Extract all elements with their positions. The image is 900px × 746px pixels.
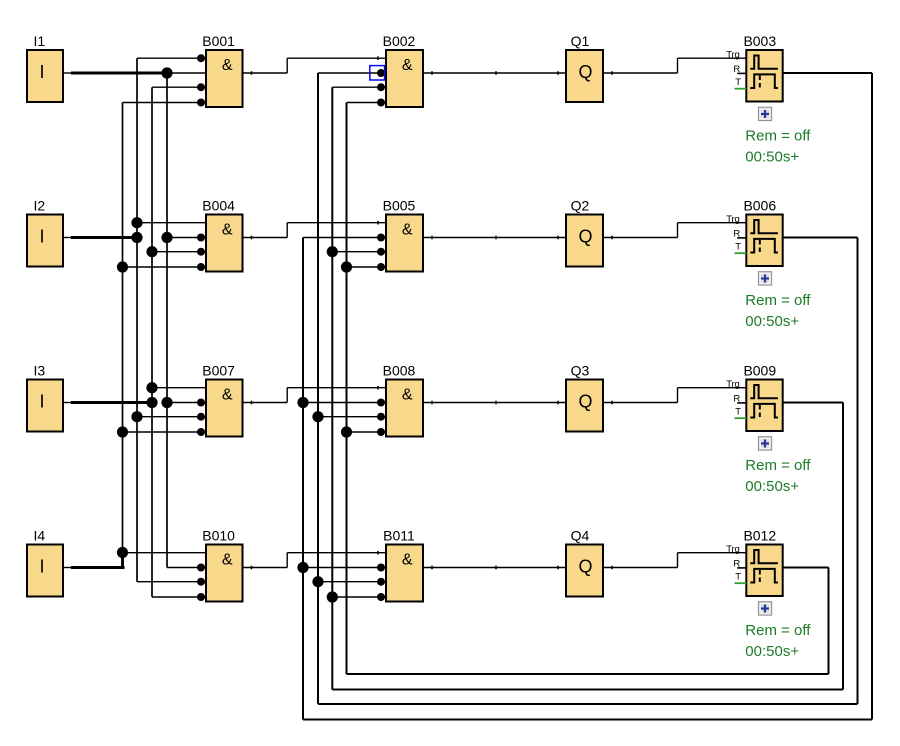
svg-text:Q2: Q2 (571, 197, 590, 213)
svg-text:I2: I2 (34, 197, 46, 213)
svg-text:00:50s+: 00:50s+ (745, 149, 799, 166)
svg-text:Q4: Q4 (571, 527, 590, 543)
svg-text:B003: B003 (743, 33, 776, 49)
svg-text:B011: B011 (383, 527, 415, 543)
svg-text:Q: Q (578, 226, 592, 246)
svg-text:Q: Q (578, 62, 592, 82)
svg-text:Q: Q (578, 391, 592, 411)
svg-text:&: & (222, 222, 233, 239)
svg-text:&: & (402, 57, 413, 74)
svg-text:T: T (735, 77, 741, 88)
svg-text:&: & (402, 387, 413, 404)
svg-text:B012: B012 (743, 527, 776, 543)
svg-text:B002: B002 (383, 33, 416, 49)
svg-text:B008: B008 (383, 362, 416, 378)
svg-text:B007: B007 (202, 362, 235, 378)
svg-text:Trg: Trg (726, 544, 739, 555)
svg-text:I4: I4 (34, 527, 46, 543)
svg-text:Q3: Q3 (571, 362, 590, 378)
svg-text:I: I (39, 227, 44, 247)
svg-text:Trg: Trg (726, 214, 739, 225)
svg-text:B005: B005 (383, 197, 416, 213)
svg-text:&: & (402, 552, 413, 569)
svg-text:00:50s+: 00:50s+ (745, 313, 799, 330)
svg-text:&: & (222, 57, 233, 74)
svg-text:Rem = off: Rem = off (745, 457, 811, 474)
svg-text:B009: B009 (743, 362, 776, 378)
svg-text:B010: B010 (202, 527, 235, 543)
svg-text:Rem = off: Rem = off (745, 622, 811, 639)
svg-text:Rem = off: Rem = off (745, 292, 811, 309)
svg-text:T: T (735, 571, 741, 582)
svg-text:I: I (39, 62, 44, 82)
svg-text:B001: B001 (202, 33, 235, 49)
svg-text:Q1: Q1 (571, 33, 590, 49)
svg-text:Rem = off: Rem = off (745, 128, 811, 145)
svg-text:&: & (222, 552, 233, 569)
svg-text:Q: Q (578, 556, 592, 576)
svg-text:Trg: Trg (726, 379, 739, 390)
svg-text:&: & (222, 387, 233, 404)
svg-text:I3: I3 (34, 362, 46, 378)
svg-text:I: I (39, 392, 44, 412)
svg-text:00:50s+: 00:50s+ (745, 643, 799, 660)
svg-text:I1: I1 (34, 33, 46, 49)
svg-text:T: T (735, 241, 741, 252)
svg-text:00:50s+: 00:50s+ (745, 478, 799, 495)
svg-text:&: & (402, 222, 413, 239)
svg-text:Trg: Trg (726, 49, 739, 60)
svg-text:T: T (735, 406, 741, 417)
svg-text:B004: B004 (202, 197, 235, 213)
svg-text:B006: B006 (743, 197, 776, 213)
svg-text:I: I (39, 557, 44, 577)
